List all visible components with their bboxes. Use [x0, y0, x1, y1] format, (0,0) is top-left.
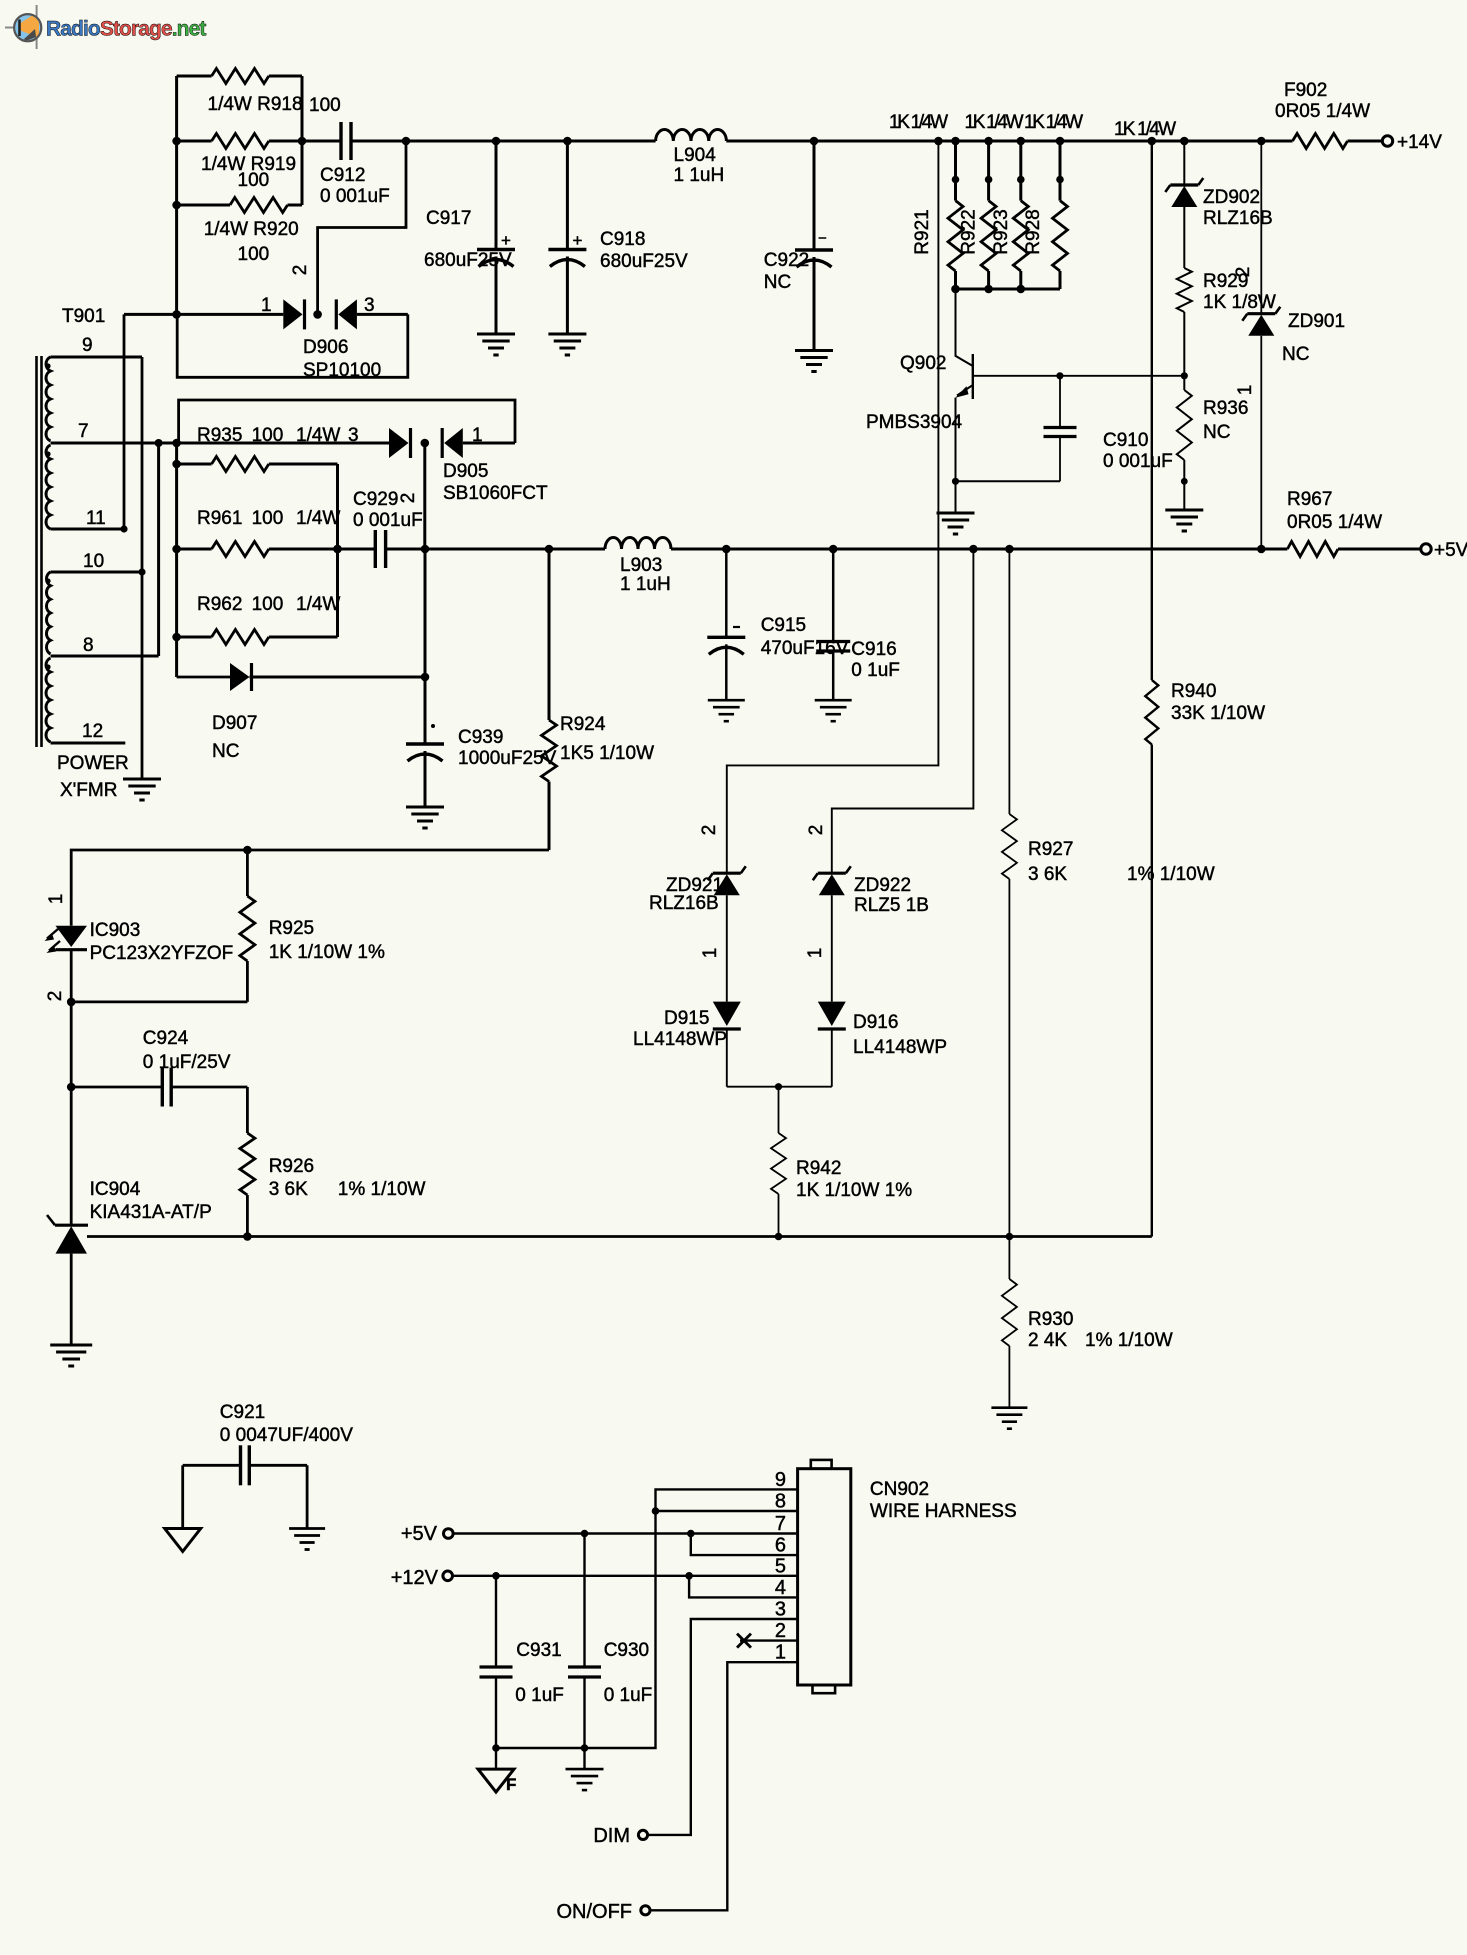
wire T901 pin 9 [51, 335, 143, 357]
svg-text:1: 1 [46, 894, 67, 905]
pin 1 CN902 [775, 1642, 786, 1664]
svg-text:1K 1/4W: 1K 1/4W [889, 112, 948, 133]
svg-text:ZD901: ZD901 [1288, 311, 1345, 332]
svg-text:RLZ16B: RLZ16B [1203, 208, 1273, 229]
svg-text:NC: NC [1203, 422, 1230, 443]
svg-text:6: 6 [775, 1535, 786, 1557]
wire +5V to pin7 [453, 1530, 797, 1538]
ground R930 [991, 1408, 1027, 1429]
svg-text:L904: L904 [674, 145, 717, 166]
svg-text:R940: R940 [1171, 681, 1216, 702]
svg-text:+: + [501, 231, 511, 250]
svg-text:1: 1 [805, 948, 826, 959]
svg-text:R925: R925 [269, 918, 314, 939]
svg-text:12: 12 [82, 721, 103, 742]
svg-text:IC903: IC903 [90, 920, 141, 941]
svg-text:R961: R961 [197, 508, 242, 529]
fuse F902 [1275, 80, 1382, 149]
svg-text:680uF25V: 680uF25V [600, 251, 688, 272]
svg-text:1: 1 [700, 948, 721, 959]
svg-text:0R05 1/4W: 0R05 1/4W [1287, 512, 1382, 533]
svg-text:+14V: +14V [1397, 132, 1442, 153]
wire D907 row junction [421, 549, 430, 744]
ground C922 [795, 351, 833, 372]
svg-text:−: − [818, 230, 827, 247]
svg-text:0 1uF/25V: 0 1uF/25V [143, 1052, 231, 1073]
resistor R920 [177, 198, 302, 266]
resistor R918 [177, 69, 341, 117]
svg-text:C918: C918 [600, 229, 645, 250]
svg-text:X'FMR: X'FMR [60, 780, 117, 801]
ground R936 [1165, 510, 1203, 531]
svg-text:R936: R936 [1203, 398, 1248, 419]
wire pin1 to ON/OFF [650, 1662, 798, 1910]
wire pin9 to ground row [492, 1489, 797, 1751]
svg-text:1K 1/8W: 1K 1/8W [1203, 292, 1276, 313]
svg-text:1: 1 [472, 425, 483, 446]
ground IC904 [50, 1345, 92, 1366]
resistor R961 [197, 508, 340, 557]
svg-text:R924: R924 [560, 714, 606, 735]
svg-text:1K 1/4W: 1K 1/4W [1024, 112, 1083, 133]
resistor R962 [177, 594, 341, 645]
svg-text:R921: R921 [912, 209, 933, 254]
resistor R930 [1002, 1237, 1173, 1408]
wire pin3 to DIM [648, 1619, 798, 1835]
resistor R940 [1145, 141, 1265, 1237]
resistor R923 [991, 141, 1029, 289]
svg-text:1: 1 [261, 295, 272, 316]
inductor L904 [656, 129, 727, 186]
ground Q902 [937, 481, 975, 534]
svg-text:+12V: +12V [391, 1567, 439, 1589]
resistor R942 [771, 1087, 912, 1237]
svg-text:RLZ16B: RLZ16B [649, 893, 719, 914]
svg-text:2: 2 [806, 825, 827, 836]
svg-text:0 1uF: 0 1uF [851, 660, 900, 681]
svg-text:7: 7 [775, 1513, 786, 1535]
svg-text:10: 10 [83, 551, 104, 572]
wire pin4 [689, 1576, 798, 1598]
diode D916 [818, 1002, 947, 1087]
svg-text:C917: C917 [426, 208, 471, 229]
svg-text:1K5 1/10W: 1K5 1/10W [560, 743, 654, 764]
wire pin2 NC [737, 1634, 798, 1648]
svg-text:NC: NC [764, 272, 791, 293]
zener ZD922 [805, 866, 929, 1001]
svg-text:NC: NC [1282, 344, 1309, 365]
svg-text:1/4W: 1/4W [296, 594, 340, 615]
wire pin8 to pin7 row [155, 439, 163, 656]
resistor R922 [959, 141, 997, 289]
wire pin6 [691, 1534, 798, 1556]
capacitor C930 [568, 1534, 652, 1770]
svg-text:2: 2 [290, 265, 311, 276]
svg-text:R922: R922 [959, 209, 980, 254]
resistor R926 [240, 1087, 426, 1237]
transformer T901 [37, 306, 106, 747]
capacitor C922 [764, 141, 833, 351]
wire pin8 [656, 1510, 798, 1512]
svg-text:1K 1/4W: 1K 1/4W [965, 112, 1024, 133]
resistor R924 [542, 549, 655, 850]
svg-text:Q902: Q902 [900, 353, 946, 374]
svg-text:1% 1/10W: 1% 1/10W [1085, 1330, 1173, 1351]
svg-text:DIM: DIM [593, 1825, 630, 1847]
terminal +14V [1382, 132, 1442, 153]
svg-text:R928: R928 [1023, 209, 1044, 254]
ground T901 [123, 779, 161, 800]
svg-text:C939: C939 [458, 727, 503, 748]
svg-text:C921: C921 [220, 1402, 265, 1423]
svg-text:4: 4 [775, 1577, 786, 1599]
svg-text:100: 100 [238, 244, 270, 265]
svg-text:RLZ5 1B: RLZ5 1B [854, 895, 929, 916]
resistor R928 [1023, 141, 1068, 289]
svg-text:D906: D906 [303, 337, 348, 358]
ground C930 [566, 1769, 604, 1790]
svg-text:1000uF25V: 1000uF25V [458, 748, 557, 769]
svg-text:1/4W: 1/4W [296, 508, 340, 529]
capacitor C915 [707, 549, 848, 700]
svg-text:100: 100 [309, 95, 341, 116]
capacitor C917 [424, 141, 515, 334]
svg-text:C912: C912 [320, 165, 365, 186]
svg-text:R927: R927 [1028, 839, 1073, 860]
zener ZD902 [1165, 141, 1272, 268]
logo RadioStorage.net [5, 5, 206, 49]
capacitor C924 [67, 1028, 248, 1107]
svg-text:C924: C924 [143, 1028, 189, 1049]
svg-text:WIRE HARNESS: WIRE HARNESS [870, 1501, 1017, 1522]
wire pin9/pin10 to ground [141, 357, 144, 779]
capacitor C921 [183, 1402, 354, 1529]
svg-text:0 001uF: 0 001uF [1103, 451, 1173, 472]
wire +5V to ZD922 [806, 549, 973, 873]
pin 8 CN902 [775, 1491, 786, 1513]
wire Q902 emitter node [952, 478, 1060, 485]
svg-text:ON/OFF: ON/OFF [556, 1901, 632, 1923]
svg-text:KIA431A-AT/P: KIA431A-AT/P [90, 1202, 212, 1223]
svg-text:C930: C930 [604, 1640, 649, 1661]
svg-text:8: 8 [83, 635, 94, 656]
svg-text:POWER: POWER [57, 753, 129, 774]
wire T901 pin 11 [51, 508, 128, 533]
svg-text:0R05 1/4W: 0R05 1/4W [1275, 101, 1370, 122]
svg-text:C910: C910 [1103, 430, 1148, 451]
label 1K 1/4W x4 [889, 112, 1176, 140]
wire left bus R935 block [172, 439, 181, 677]
svg-text:R967: R967 [1287, 489, 1332, 510]
resistor R921 [912, 141, 963, 289]
wire +14V rail [406, 137, 1293, 146]
svg-text:100: 100 [252, 594, 284, 615]
terminal +5V harness [401, 1523, 453, 1545]
svg-text:100: 100 [252, 508, 284, 529]
svg-text:1: 1 [1235, 385, 1256, 396]
diode D905 [179, 400, 548, 504]
svg-text:1/4W R920: 1/4W R920 [204, 219, 299, 240]
svg-text:2: 2 [775, 1620, 786, 1642]
svg-text:LL4148WP: LL4148WP [633, 1029, 727, 1050]
svg-text:PC123X2YFZOF: PC123X2YFZOF [90, 943, 234, 964]
capacitor C910 [1044, 376, 1173, 482]
svg-text:D907: D907 [212, 713, 257, 734]
svg-text:1 1uH: 1 1uH [674, 165, 725, 186]
zener ZD921 [649, 866, 746, 1001]
ground C917 [477, 334, 515, 355]
pin 5 CN902 [775, 1555, 786, 1577]
svg-text:3: 3 [348, 425, 359, 446]
svg-text:R942: R942 [796, 1158, 841, 1179]
ground C915 [708, 700, 745, 721]
svg-text:3: 3 [775, 1599, 786, 1621]
svg-text:C915: C915 [761, 615, 806, 636]
resistor R967 [1287, 489, 1421, 557]
diode D915 [633, 1002, 741, 1087]
capacitor C929 [353, 489, 423, 568]
wire pin11 to D906 node [123, 314, 126, 529]
wire opto cathode row [67, 998, 248, 1087]
resistor R919 [177, 134, 302, 192]
svg-text:2: 2 [398, 493, 419, 504]
chassis ground C921 [165, 1529, 201, 1552]
pin 6 CN902 [775, 1535, 786, 1557]
svg-text:100: 100 [238, 170, 270, 191]
svg-text:1K 1/10W 1%: 1K 1/10W 1% [269, 942, 385, 963]
svg-text:2: 2 [45, 991, 66, 1002]
svg-text:0 001uF: 0 001uF [353, 510, 423, 531]
terminal DIM [593, 1825, 647, 1847]
svg-text:SB1060FCT: SB1060FCT [443, 483, 548, 504]
svg-text:11: 11 [86, 508, 106, 529]
svg-text:C916: C916 [851, 639, 896, 660]
wire D905 pin2 to +5V rail [398, 443, 425, 549]
svg-text:SP10100: SP10100 [303, 360, 381, 381]
terminal +5V [1421, 540, 1467, 561]
svg-text:0 001uF: 0 001uF [320, 186, 390, 207]
wire reference row [87, 1232, 1152, 1241]
svg-text:2: 2 [1233, 267, 1254, 278]
wire Q902 base row [973, 372, 1188, 379]
svg-text:ZD922: ZD922 [854, 875, 911, 896]
ground C918 [548, 334, 586, 355]
svg-text:F: F [506, 1775, 516, 1794]
svg-text:PMBS3904: PMBS3904 [866, 412, 963, 433]
shunt regulator IC904 [47, 1087, 212, 1345]
svg-text:D916: D916 [853, 1012, 898, 1033]
wire T901 pin 7 [51, 421, 181, 443]
optocoupler IC903 [45, 892, 234, 1002]
terminal +12V harness [391, 1567, 453, 1589]
wire T901 pin 12 [51, 721, 126, 743]
resistor R927 [1002, 549, 1215, 1237]
svg-text:9: 9 [775, 1469, 786, 1491]
label POWER XFMR [57, 753, 129, 801]
pin 9 CN902 [775, 1469, 786, 1491]
svg-text:33K 1/10W: 33K 1/10W [1171, 703, 1265, 724]
svg-text:LL4148WP: LL4148WP [853, 1037, 947, 1058]
svg-text:+: + [573, 231, 583, 250]
svg-text:C931: C931 [516, 1640, 561, 1661]
svg-text:NC: NC [212, 741, 239, 762]
svg-text:D915: D915 [664, 1008, 709, 1029]
wire snubber right bus [298, 76, 307, 205]
wire +12V to pin5 [453, 1572, 798, 1580]
transistor Q902 [866, 289, 973, 481]
svg-text:680uF25V: 680uF25V [424, 250, 512, 271]
capacitor C916 [816, 549, 900, 700]
svg-text:C922: C922 [764, 250, 809, 271]
svg-text:F902: F902 [1284, 80, 1327, 101]
svg-text:2: 2 [699, 825, 720, 836]
svg-text:C929: C929 [353, 489, 398, 510]
svg-text:R926: R926 [269, 1156, 314, 1177]
svg-text:D905: D905 [443, 461, 488, 482]
svg-text:1% 1/10W: 1% 1/10W [338, 1179, 426, 1200]
wire T901 pin 8 [51, 635, 159, 656]
terminal ON/OFF [556, 1901, 650, 1923]
svg-text:RadioStorage.net: RadioStorage.net [46, 18, 206, 41]
svg-text:1% 1/10W: 1% 1/10W [1127, 864, 1215, 885]
wire snubber left bus [172, 76, 181, 314]
svg-text:1K 1/10W 1%: 1K 1/10W 1% [796, 1180, 912, 1201]
capacitor C939 [406, 724, 557, 807]
capacitor C912 [302, 122, 410, 207]
svg-text:7: 7 [78, 421, 89, 442]
svg-text:8: 8 [775, 1491, 786, 1513]
wire D915/D916 bottoms [727, 1083, 832, 1090]
wire rail to ZD921 [699, 141, 938, 873]
svg-text:2 4K: 2 4K [1028, 1330, 1067, 1351]
diode D906 [124, 295, 408, 381]
pin 4 CN902 [775, 1577, 786, 1599]
svg-text:9: 9 [82, 335, 93, 356]
svg-text:3 6K: 3 6K [1028, 864, 1067, 885]
ground C939 [406, 807, 444, 828]
svg-text:CN902: CN902 [870, 1479, 929, 1500]
svg-text:T901: T901 [62, 306, 105, 327]
svg-text:0 1uF: 0 1uF [604, 1685, 653, 1706]
chassis ground C931 F [478, 1769, 516, 1794]
svg-text:IC904: IC904 [90, 1179, 141, 1200]
svg-text:5: 5 [775, 1555, 786, 1577]
svg-text:+5V: +5V [1434, 540, 1467, 561]
capacitor C931 [480, 1576, 564, 1769]
resistor R936 [1177, 376, 1249, 510]
resistor R929 [1177, 267, 1276, 376]
connector CN902 body [798, 1460, 1017, 1693]
inductor L903 [605, 538, 671, 596]
svg-text:1 1uH: 1 1uH [620, 574, 671, 595]
svg-text:3: 3 [364, 295, 375, 316]
pin 2 CN902 [775, 1620, 786, 1642]
ground C921 [289, 1529, 325, 1550]
svg-text:3 6K: 3 6K [269, 1179, 308, 1200]
svg-text:R962: R962 [197, 594, 242, 615]
pin 3 CN902 [775, 1599, 786, 1621]
wire D906 cathode to rail [290, 141, 406, 314]
wire feedback row [71, 846, 549, 892]
wire right bus R935 block [333, 464, 342, 637]
capacitor C918 [548, 141, 688, 334]
wire cluster bottom row [951, 285, 1060, 294]
svg-text:1K 1/4W: 1K 1/4W [1114, 119, 1176, 140]
svg-text:0 1uF: 0 1uF [515, 1685, 564, 1706]
svg-text:L903: L903 [620, 555, 662, 576]
pin 7 CN902 [775, 1513, 786, 1535]
svg-text:1: 1 [775, 1642, 786, 1664]
svg-text:R923: R923 [991, 209, 1012, 254]
svg-text:1/4W R918: 1/4W R918 [208, 94, 303, 115]
ground C916 [815, 700, 852, 721]
resistor R925 [240, 850, 385, 1002]
wire +5V rail [177, 545, 1288, 554]
svg-text:ZD902: ZD902 [1203, 187, 1260, 208]
resistor R935 [177, 425, 341, 472]
zener ZD901 [1235, 141, 1345, 549]
svg-text:+5V: +5V [401, 1523, 438, 1545]
diode D907 [177, 663, 425, 762]
wire T901 pin 10 [51, 551, 146, 576]
svg-text:R930: R930 [1028, 1309, 1073, 1330]
svg-text:0 0047UF/400V: 0 0047UF/400V [220, 1425, 353, 1446]
